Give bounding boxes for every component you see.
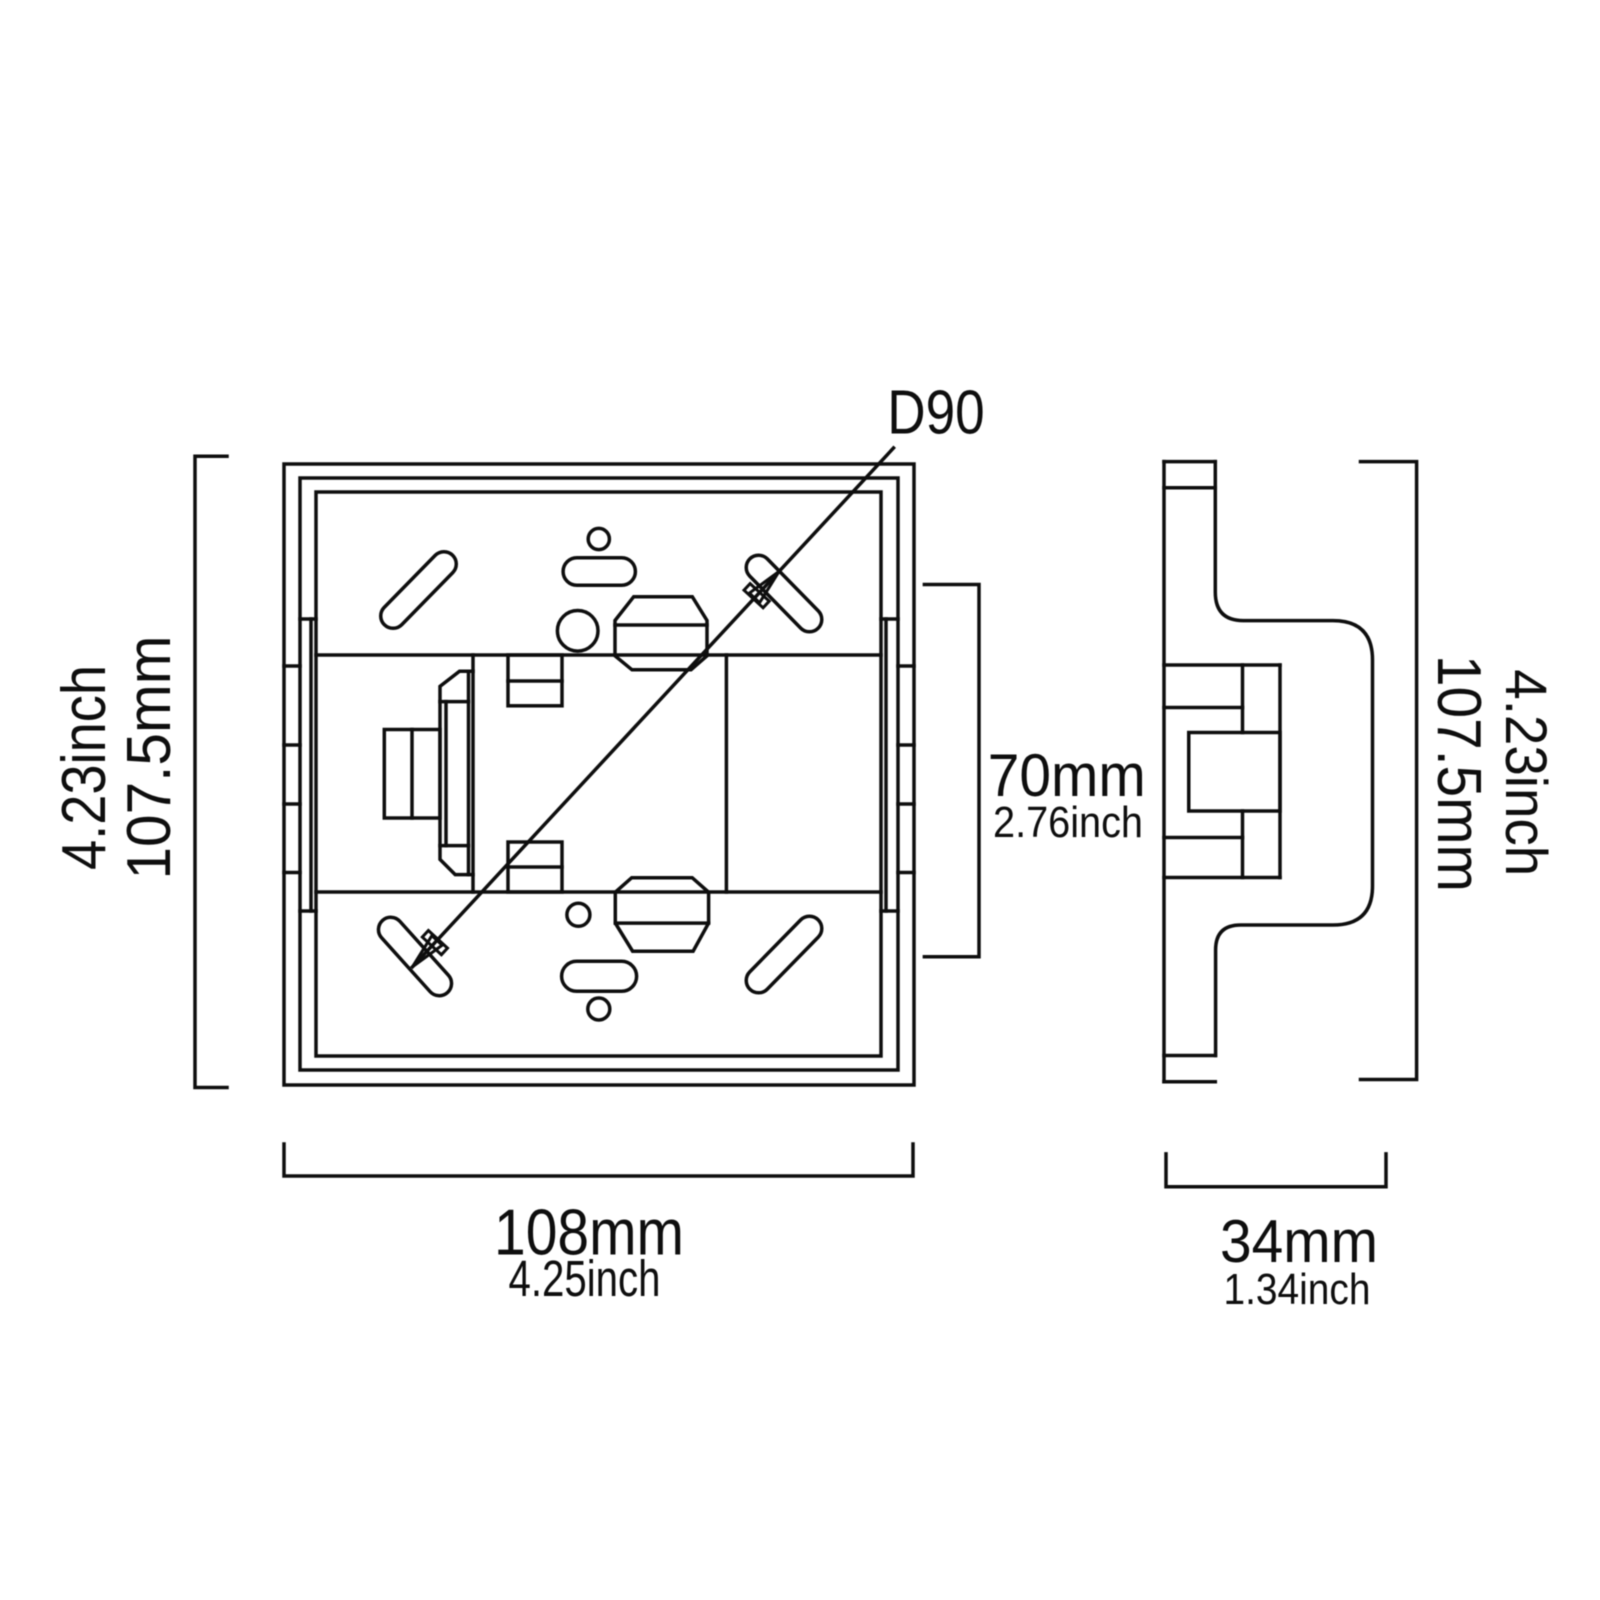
right edge clip rail (884, 619, 888, 911)
left edge clip tick lower (300, 909, 316, 913)
mounting slot top-left (376, 547, 462, 634)
switch claw step bottom (440, 844, 469, 848)
svg-text:D90: D90 (887, 379, 985, 448)
left edge clip rail (309, 619, 313, 911)
band divider bottom (316, 890, 881, 894)
depth dimension bracket bottom right (1166, 1154, 1386, 1187)
side mechanism inner post upper (1241, 665, 1245, 733)
svg-text:107.5mm: 107.5mm (1424, 655, 1493, 892)
height dimension bracket right (1361, 462, 1417, 1080)
switch claw inner rail (444, 702, 448, 846)
nut boss bottom (615, 878, 708, 952)
right edge flex tick 4 (898, 871, 914, 875)
band divider top (316, 653, 881, 657)
svg-text:107.5mm: 107.5mm (115, 636, 184, 880)
side mechanism switch block (1189, 733, 1280, 812)
switch claw outline (440, 671, 473, 874)
left edge flex tick 4 (284, 871, 300, 875)
right edge clip tick lower (881, 909, 898, 913)
right edge flex tick 1 (898, 664, 914, 668)
mounting slot top-right (741, 550, 827, 637)
svg-text:4.25inch: 4.25inch (509, 1250, 661, 1307)
side mechanism inner post lower (1241, 811, 1245, 878)
switch claw step top (440, 700, 469, 704)
arrowhead top (749, 572, 779, 603)
screw hole small top (588, 528, 609, 549)
right edge flex tick 3 (898, 802, 914, 806)
side mechanism face line (1278, 665, 1282, 878)
height dimension bracket left (195, 456, 227, 1087)
front view inner frame (316, 492, 881, 1056)
terminal block bottom divider (508, 865, 562, 869)
left edge clip tick upper (300, 617, 316, 621)
inner height dimension bracket 70mm (924, 585, 979, 957)
side view wall plate (1162, 462, 1166, 1082)
arrow tick top (744, 584, 769, 608)
arrow tick bottom (422, 931, 447, 955)
side mechanism lower divider (1164, 836, 1243, 840)
nut boss bottom facet line (615, 921, 708, 925)
nut boss top (615, 597, 707, 670)
side view body profile (1215, 462, 1372, 1056)
side view top tab (1164, 462, 1215, 488)
arrowhead bottom (413, 936, 443, 967)
side mechanism upper divider (1164, 706, 1243, 710)
left edge flex tick 2 (284, 743, 300, 747)
front view middle frame (300, 478, 898, 1070)
svg-text:4.23inch: 4.23inch (1493, 669, 1558, 876)
adjustment slot top (563, 558, 635, 586)
actuator block divider (410, 730, 414, 819)
mechanism centre line (471, 655, 475, 892)
cable hole top (557, 611, 598, 652)
right edge clip tick upper (881, 617, 898, 621)
side mechanism top line (1164, 663, 1280, 667)
side view bottom tab (1164, 1056, 1215, 1082)
width dimension bracket bottom (284, 1144, 913, 1176)
mechanism right boundary (725, 655, 729, 892)
mounting slot bottom-left (373, 912, 456, 1001)
left edge flex tick 1 (284, 664, 300, 668)
right edge flex tick 2 (898, 743, 914, 747)
switch claw inner edge (467, 671, 471, 874)
svg-text:1.34inch: 1.34inch (1224, 1265, 1371, 1314)
side mechanism bottom line (1164, 876, 1280, 880)
svg-text:2.76inch: 2.76inch (993, 798, 1143, 847)
adjustment slot bottom (562, 961, 637, 991)
terminal block top divider (508, 679, 562, 683)
screw hole small bottom (588, 998, 610, 1020)
terminal block bottom (508, 842, 562, 892)
mounting slot bottom-right (741, 911, 827, 998)
diameter line D90 (413, 448, 894, 967)
nut boss top facet line (615, 623, 707, 627)
svg-text:4.23inch: 4.23inch (50, 665, 119, 870)
actuator block (384, 730, 440, 819)
cable hole bottom (567, 903, 590, 926)
left edge flex tick 3 (284, 802, 300, 806)
front view outer frame (284, 464, 914, 1085)
terminal block top (508, 655, 562, 706)
